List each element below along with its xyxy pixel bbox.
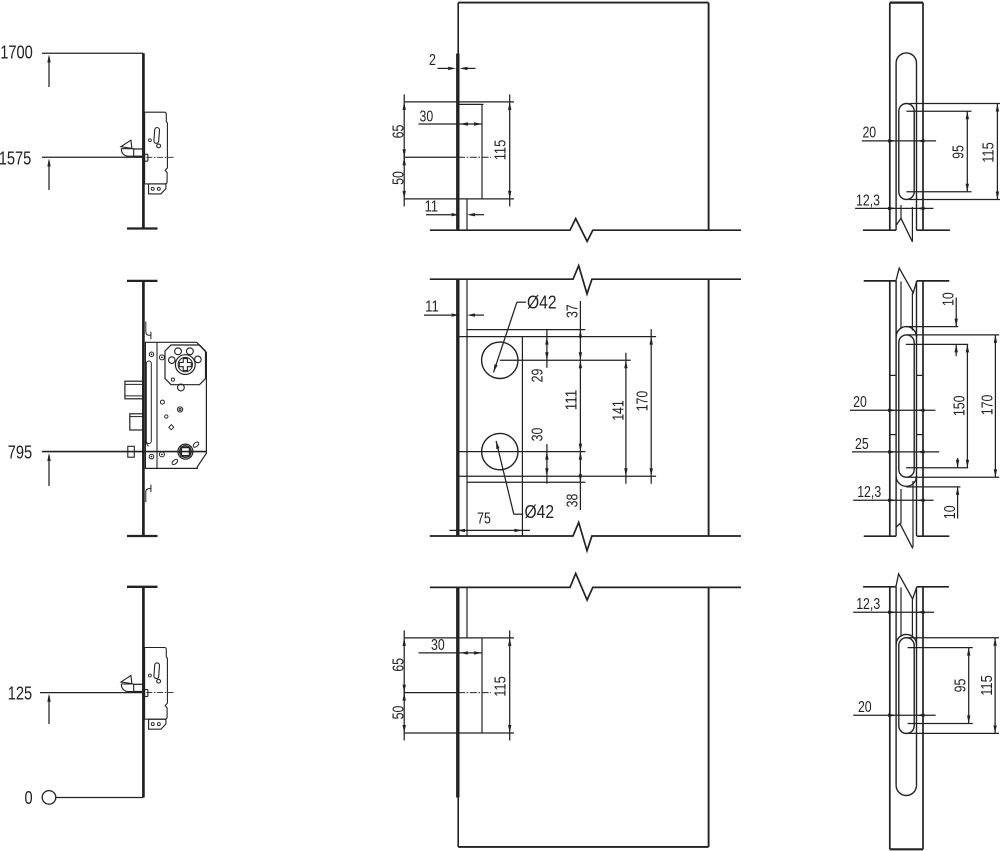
dimension 12,3 (bottom right) [853,611,934,614]
svg-text:170: 170 [980,394,997,415]
handle axis line (bottom latch) [404,692,491,694]
dimension 30 (hole to case bottom) [545,444,548,484]
svg-text:95: 95 [953,678,970,692]
faceplate right edge (front view bottom) [922,587,924,850]
main lock case top edge (front view) [458,336,656,338]
upper hole axis extension [500,359,631,361]
faceplate edge thick line (bottom section) [456,587,459,797]
cylinder plate screw holes [169,348,202,381]
door edge line (side view, bottom section) [142,587,145,798]
pointed break (middle view top) [896,268,917,293]
pointed break (top view bottom) [897,218,913,242]
rebate line (11 offset, top view) [466,199,468,230]
door panel left edge (bottom section) [457,587,459,847]
dimension 50 (bottom view) [403,685,406,740]
pointed break (middle view bottom) [896,524,913,549]
svg-text:10: 10 [942,505,959,519]
faceplate bottom cap [890,848,923,850]
svg-text:115: 115 [980,142,997,163]
svg-text:170: 170 [635,390,652,411]
svg-text:50: 50 [391,171,408,185]
dimension 12,3 (top right) [855,207,933,210]
dimension 115 (top right) [996,104,999,200]
leader lower hole diameter 42 [496,441,523,514]
datum 0 symbol [42,791,143,805]
strip hook below case [146,485,151,503]
svg-text:65: 65 [391,124,408,138]
dimension 75 [450,529,530,532]
dimension 1575 arrow [47,159,50,191]
door panel right edge (middle section) [708,279,710,536]
door edge break line (right column, below middle view) [864,535,950,537]
dimension 37 [579,301,582,510]
svg-text:Ø42: Ø42 [525,501,555,522]
svg-text:11: 11 [425,299,439,316]
dimension 125 line [40,692,143,694]
door edge break line (right column, above bottom view) [863,586,949,588]
pointed break (bottom view top) [896,574,917,599]
dimension 10 (middle right bottom) [956,458,959,519]
dimension 29 [545,329,548,368]
faceplate left edge (front view top) [889,3,891,231]
slot channel lines (bottom view) [901,587,912,638]
slot cutout (front view top) [899,103,914,199]
svg-text:12,3: 12,3 [856,596,880,613]
svg-text:65: 65 [391,658,408,672]
dimension 125 arrow [47,694,50,724]
svg-text:11: 11 [424,199,438,216]
dimension 95 (bottom right) [967,648,970,724]
faceplate left edge (front view bottom) [889,587,891,850]
dimension 11 (middle section) [424,313,484,316]
svg-text:125: 125 [8,683,32,704]
dimension 1700 arrow [47,55,50,88]
gear wheel with phillips cross [175,355,195,375]
svg-text:141: 141 [611,400,628,421]
svg-text:95: 95 [951,145,968,159]
svg-text:30: 30 [420,109,434,126]
dimension 20 (top right) [862,139,936,142]
groove top arc (bottom view) [896,634,916,644]
top latch (side view) [121,112,174,194]
svg-text:150: 150 [951,395,968,416]
svg-text:20: 20 [858,699,872,716]
dimension 1700 line [42,52,143,54]
faceplate joint marks (middle view) [890,375,923,434]
dimension 795 line / spindle axis [42,451,207,453]
groove edges (front view bottom) [896,587,916,786]
bottom latch (side view) [121,648,174,730]
door break line with zigzag (bottom section top) [430,573,741,600]
door edge bottom cap (middle section) [127,535,158,537]
extension lines (bottom right) [906,638,999,734]
dimension 10 (middle right top) [955,298,958,357]
svg-text:1700: 1700 [0,42,33,63]
lower hole axis extension (spindle axis) [458,451,585,453]
dimension 38 [579,452,582,483]
svg-text:30: 30 [530,427,547,441]
svg-text:115: 115 [979,675,996,696]
svg-text:37: 37 [564,304,581,318]
door panel left edge above faceplate [457,3,459,54]
extension lines (middle right) [906,327,999,487]
upper locking bolt (side view) [125,381,143,399]
faceplate right edge (front view middle) [922,281,924,536]
extension lines for 95/115 (top right) [907,104,1000,200]
upper bore hole (42 mm) [482,342,518,378]
slot cutout (front view middle) [899,335,914,477]
main lock case outline (side view) [145,342,206,468]
door break line with zigzag (top section bottom) [430,219,741,242]
dimension 65 (bottom view) [403,630,406,700]
door panel right edge (top section) [708,3,710,231]
groove bottom arc (middle view) [896,476,916,486]
svg-text:115: 115 [493,676,510,697]
slot channel lines (top view) [901,205,912,242]
door edge line (side view, top section) [142,53,145,228]
slot cutout (front view bottom) [899,638,914,734]
dimension 20 (middle right) [850,409,936,412]
case small holes [160,400,182,430]
handle axis line (top latch) [404,156,491,158]
dimension 2 (faceplate thickness) [438,67,476,70]
leader upper hole diameter 42 [494,302,526,372]
dimension 795 arrow [47,453,50,486]
svg-text:0: 0 [24,787,32,808]
groove edges (front view middle) [896,281,916,536]
door edge bottom cap (top section) [127,227,158,229]
faceplate edge thick line (top section) [456,54,459,231]
dimension 1575 line [42,156,143,158]
door panel right edge (bottom section) [708,587,710,847]
dimension 170 (middle) [650,329,653,484]
dimension 111 [579,360,582,451]
faceplate groove slot (side view) [145,361,151,446]
svg-text:20: 20 [853,394,867,411]
main lock case right edge [521,337,523,536]
rebate line (middle section) [466,279,468,536]
slot channel lines (middle view top) [901,282,912,331]
top latch case (front view) [404,102,514,199]
svg-text:Ø42: Ø42 [527,291,557,312]
door panel top edge [458,2,708,4]
faceplate left edge (front view middle) [889,281,891,536]
groove recess (front view top) [896,53,916,230]
svg-text:12,3: 12,3 [857,484,881,501]
svg-text:25: 25 [855,436,869,453]
main lock case bottom edge [458,475,656,477]
door break line with zigzag (middle section top) [430,266,741,294]
dimension 115 (top view) [508,94,511,206]
slot channel lines (middle view bottom) [901,481,913,547]
dimension 170 (right) [994,335,997,477]
strike plate top edge [467,329,585,331]
svg-text:12,3: 12,3 [856,192,880,209]
faceplate top cap (front view top) [890,1,923,3]
bottom latch case (front view) [404,638,514,733]
door edge break line (right column, above middle view) [864,280,950,282]
svg-text:75: 75 [477,511,491,528]
cylinder mounting plate (octagon) [165,345,206,385]
door break line with zigzag (middle section bottom) [430,522,741,550]
svg-text:50: 50 [391,705,408,719]
svg-text:111: 111 [564,390,581,411]
svg-text:30: 30 [431,637,445,654]
lower bore hole (42 mm) [482,433,518,469]
strike plate bottom edge [467,481,585,483]
dimension 30 (bottom latch case depth) [419,651,483,654]
door edge top cap (middle section) [127,280,158,282]
oblong holes near spindle [171,441,200,466]
svg-text:20: 20 [862,125,876,142]
dimension 30 (top latch case depth) [419,122,483,125]
svg-text:10: 10 [940,292,957,306]
dimension 50 (top view) [403,150,406,207]
door edge top cap (bottom section) [127,586,158,588]
dimension 95 (top right) [966,111,969,192]
dimension 65 (top view) [403,94,406,164]
svg-text:795: 795 [8,442,32,463]
dimension 115 (bottom view) [508,630,511,740]
dimension 12,3 (middle right) [853,499,933,502]
dimension 25 (middle right) [852,450,939,453]
rebate line (bottom view) [466,587,468,638]
hole below cylinder plate [178,384,185,391]
dimension 115 (bottom right) [993,638,996,734]
strip hook above case [146,322,151,340]
svg-text:1575: 1575 [0,148,31,169]
faceplate screws (side view) [149,352,164,459]
svg-text:38: 38 [564,494,581,508]
svg-text:2: 2 [429,52,436,69]
dimension 141 [624,353,627,484]
spindle follower [178,444,193,459]
door panel bottom edge [458,846,708,848]
door edge break line (right column, below top view) [863,229,950,231]
dimension 150 [966,344,969,467]
svg-text:29: 29 [530,369,547,383]
spindle follower hub (protruding) [128,446,135,457]
faceplate edge thick line (middle section) [456,279,459,536]
svg-text:115: 115 [493,139,510,160]
dimension 11 (top view) [426,213,484,216]
door edge line (side view, middle section) [142,281,145,536]
lower locking bolt (side view) [130,414,143,430]
groove top arc (middle view) [896,327,916,337]
faceplate right edge (front view top) [922,3,924,231]
groove bottom arc (bottom view) [896,785,916,795]
dimension 20 (bottom right) [853,714,936,717]
